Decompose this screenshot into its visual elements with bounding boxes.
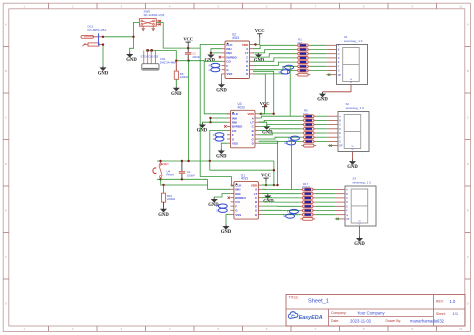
- wire reset bottom rail: [157, 178, 208, 180]
- wire R2 to S2 pin D: [316, 128, 328, 130]
- svg-text:Reset: Reset: [167, 173, 175, 177]
- wire R2 to S2 pin G: [316, 140, 328, 142]
- switch SW5 body: [139, 19, 160, 31]
- svg-text:GND: GND: [126, 58, 137, 63]
- capacitor C2 100nF: [185, 48, 200, 61]
- wire horizontal R6 rail: [176, 60, 204, 62]
- svg-text:U: U: [350, 81, 352, 84]
- svg-text:Drawn By:: Drawn By:: [386, 319, 402, 323]
- wire R2 to S2 pin C: [316, 124, 328, 126]
- wire VCC to U3 VDD: [259, 110, 265, 114]
- svg-text:D: D: [467, 162, 469, 166]
- ground under R6: [171, 86, 182, 97]
- svg-text:G: G: [339, 141, 341, 144]
- display S1 sevenseg: [310, 35, 367, 85]
- svg-text:GND: GND: [208, 203, 219, 208]
- connector DC1 DC-005C-25A label: [88, 25, 107, 32]
- svg-text:VSS: VSS: [226, 72, 232, 76]
- power flag VCC main: [183, 37, 193, 46]
- no-connect U1 BI/RBO: [228, 197, 230, 199]
- ground under U2: [216, 83, 227, 94]
- ground S2: [347, 160, 358, 171]
- ground under R10: [158, 207, 169, 218]
- wire U3 VSS to ground: [221, 143, 227, 149]
- net flag oval U3 F: [213, 133, 224, 137]
- svg-text:sevenseg_ 1 S: sevenseg_ 1 S: [344, 39, 363, 43]
- svg-text:GND: GND: [221, 230, 232, 235]
- svg-text:sevenseg_ 1 S: sevenseg_ 1 S: [353, 180, 372, 184]
- wire S1 common to ground: [323, 85, 352, 92]
- wire R1 to S1 pin B: [310, 49, 326, 51]
- power flag VCC at U1: [261, 173, 271, 182]
- svg-text:B: B: [5, 69, 7, 73]
- wire reset lower link: [161, 179, 208, 185]
- ground under U3: [216, 149, 227, 160]
- wire link U2 VSS row to U3 VCC stem: [253, 74, 265, 106]
- wire R2 to S2 pin A: [316, 115, 328, 117]
- op-IC U1 4033: [230, 173, 262, 219]
- svg-text:A: A: [5, 23, 7, 27]
- svg-text:Date:: Date:: [331, 319, 339, 323]
- wire reset branch right: [210, 169, 274, 171]
- EasyEDA logo: [288, 312, 322, 321]
- svg-text:2023-11-02: 2023-11-02: [350, 318, 372, 323]
- wire R1 to S1 pin E: [310, 61, 326, 63]
- wire S2 common to ground: [352, 152, 354, 160]
- wire VCC link U3 to U1: [259, 141, 278, 185]
- wire long segment vertical right row1-row2: [289, 66, 291, 116]
- svg-text:G: G: [283, 215, 285, 218]
- net flag oval R17 F: [287, 209, 298, 213]
- wire U1 RBI to ground: [214, 194, 230, 198]
- svg-text:Your Company: Your Company: [357, 310, 385, 315]
- wire U2 VSS to ground: [221, 74, 223, 83]
- svg-text:GND: GND: [158, 213, 169, 218]
- svg-text:GND: GND: [317, 98, 328, 103]
- wire U1 LT pulldown: [262, 193, 268, 195]
- wire switch right pin to VCC rail: [156, 22, 200, 48]
- wire U2 INH+RBI to ground: [211, 49, 222, 53]
- svg-text:REV:: REV:: [436, 300, 444, 304]
- resistor network R1: [296, 38, 311, 76]
- net flag oval U1 F: [216, 204, 227, 208]
- wire U1 VDD rail right: [262, 184, 274, 186]
- display S3 sevenseg: [315, 176, 376, 226]
- net flag oval R17 G: [283, 214, 294, 218]
- svg-text:C: C: [346, 197, 348, 200]
- wire R3 to S3 pin G: [315, 214, 335, 216]
- svg-text:VCC: VCC: [255, 28, 265, 33]
- svg-text:GND: GND: [171, 92, 182, 97]
- svg-text:sevenseg_ 1 S: sevenseg_ 1 S: [346, 106, 365, 110]
- crystal CN1 labels: [141, 55, 177, 65]
- svg-text:GND: GND: [98, 72, 109, 77]
- junction: [102, 36, 104, 38]
- svg-text:220kΩ: 220kΩ: [180, 75, 188, 79]
- svg-text:E: E: [5, 209, 7, 213]
- svg-text:VSS: VSS: [235, 213, 241, 217]
- wire segment feeds U->R3: [262, 188, 300, 190]
- net flag oval U2 G: [209, 68, 220, 72]
- svg-text:DHZ 54-48M: DHZ 54-48M: [160, 60, 177, 64]
- power flag VCC at U2: [255, 28, 265, 37]
- svg-text:220kΩ: 220kΩ: [167, 197, 175, 201]
- wire reset net to U1 VDD column: [273, 161, 275, 185]
- ground at U2 INH/RBI: [204, 53, 215, 64]
- ground at switch left: [126, 52, 137, 63]
- pushbutton U4 Reset: [153, 161, 174, 179]
- ground S1: [317, 92, 328, 103]
- svg-text:GND: GND: [216, 155, 227, 160]
- wire R1 to S1 pin G: [310, 70, 326, 72]
- svg-text:VCC: VCC: [183, 37, 193, 42]
- svg-text:manarhamada632: manarhamada632: [410, 318, 445, 323]
- svg-text:VSS: VSS: [232, 142, 238, 146]
- svg-text:4033: 4033: [238, 105, 245, 109]
- wire segment feeds U->R2: [259, 116, 302, 118]
- svg-text:G: G: [213, 138, 215, 141]
- svg-text:E: E: [467, 209, 469, 213]
- svg-text:D: D: [338, 57, 340, 60]
- svg-text:4033: 4033: [241, 177, 248, 181]
- svg-text:A: A: [467, 23, 469, 27]
- svg-text:D: D: [5, 162, 7, 166]
- svg-text:1/1: 1/1: [453, 311, 459, 316]
- wire U2 CO to cascade column: [204, 60, 221, 62]
- svg-text:G: G: [5, 302, 7, 306]
- wire R1 to S1 pin A: [310, 44, 326, 46]
- ground at U3 INH/RBI: [197, 123, 208, 134]
- no-connect U2 BI/RBO: [219, 56, 221, 58]
- wire R3 to S3 pin D: [315, 201, 335, 203]
- net flag oval R9 G: [284, 141, 295, 145]
- resistor R10 220k: [162, 185, 176, 207]
- svg-text:DP: DP: [346, 218, 350, 221]
- crystal CN1 body: [142, 50, 159, 70]
- net flag oval U3 G: [213, 137, 224, 141]
- wire R3 to S3 pin B: [315, 193, 335, 195]
- wire VCC stem to rail: [187, 45, 189, 48]
- svg-text:C: C: [467, 116, 469, 120]
- crystal CN1 pins wire: [146, 49, 176, 51]
- svg-text:DP: DP: [339, 145, 343, 148]
- ground under U1: [221, 224, 232, 235]
- svg-text:D: D: [339, 128, 341, 131]
- pad: [150, 49, 152, 51]
- no-connect U3 BI/RBO: [224, 125, 226, 127]
- net flag oval U1 G: [216, 208, 227, 212]
- ground under DC1: [98, 66, 109, 77]
- connector DC1 barrel jack symbol: [81, 33, 103, 46]
- svg-text:GND: GND: [354, 242, 365, 247]
- wire DC1 pin1 to switch: [103, 36, 134, 38]
- svg-text:DP: DP: [338, 74, 342, 77]
- wire R1 to S1 pin F: [310, 65, 326, 67]
- title block: [286, 295, 465, 327]
- ground at U3 LT: [262, 125, 273, 136]
- wire U3 CO cascade down: [210, 131, 227, 161]
- op-IC U2 4033: [222, 33, 254, 79]
- svg-text:G: G: [338, 70, 340, 73]
- wire C2 bottom down to reset rail: [188, 61, 190, 161]
- wire VCC to U1 VDD: [262, 181, 266, 185]
- wire U1 VSS to ground: [226, 215, 230, 225]
- svg-text:100nF: 100nF: [192, 55, 200, 59]
- svg-text:G: G: [284, 142, 286, 145]
- wire segment feeds U->R1: [253, 45, 296, 48]
- wire R3 to S3 pin A: [315, 189, 335, 191]
- svg-text:C: C: [5, 116, 7, 120]
- svg-text:G: G: [209, 69, 211, 72]
- wire reset top rail: [157, 160, 274, 162]
- no-connect S3 DP: [336, 218, 338, 220]
- wire VCC to U2 VDD: [253, 37, 260, 45]
- svg-text:VCC: VCC: [261, 173, 271, 178]
- pad: [146, 49, 148, 51]
- wire U3 INH+RBI to ground: [210, 118, 227, 122]
- svg-text:DC-005C-25A: DC-005C-25A: [88, 28, 107, 32]
- net flag oval R1 G: [279, 70, 290, 74]
- svg-text:STC-PC10-305: STC-PC10-305: [141, 55, 159, 59]
- wire R2 to S2 pin E: [316, 132, 328, 134]
- ground S3: [354, 236, 365, 247]
- svg-text:G: G: [346, 214, 348, 217]
- svg-text:EasyEDA: EasyEDA: [299, 315, 323, 321]
- svg-text:G: G: [467, 302, 469, 306]
- svg-text:U: U: [359, 223, 361, 226]
- wire CN1 rail down to R6 rail: [175, 50, 177, 60]
- display S2 sevenseg: [316, 102, 369, 152]
- wire R3 to S3 pin E: [315, 205, 335, 207]
- svg-text:GND: GND: [347, 165, 358, 170]
- wire VCC link U2 to U3: [253, 71, 274, 114]
- resistor network R17: [300, 182, 315, 220]
- wire U2 CLK from rail: [200, 45, 221, 49]
- wire R2 to S2 pin F: [316, 136, 328, 138]
- net flag oval R1 F: [282, 65, 293, 69]
- wire U1 INH from reset rail: [208, 185, 231, 189]
- svg-text:G: G: [216, 209, 218, 212]
- switch SW5 SK-12D02-VG5 labels: [144, 10, 165, 17]
- wire cascade column B to U3 CLK: [204, 61, 230, 114]
- svg-text:C: C: [338, 53, 340, 56]
- no-connect S2 DP: [329, 144, 331, 146]
- wire R1 to S1 pin D: [310, 57, 326, 59]
- no-connect S1 DP: [328, 74, 330, 76]
- wire DC1 pin2 down to ground: [102, 45, 104, 66]
- svg-text:Sheet:: Sheet:: [436, 312, 446, 316]
- svg-text:100nF: 100nF: [187, 174, 195, 178]
- wire S3 common to ground: [359, 226, 361, 236]
- net flag oval R9 F: [288, 136, 299, 140]
- op-IC U3 4033: [227, 102, 259, 148]
- wire R2 to S2 pin B: [316, 119, 328, 121]
- svg-text:Sheet_1: Sheet_1: [308, 299, 329, 305]
- svg-text:GND: GND: [197, 129, 208, 134]
- svg-text:TITLE:: TITLE:: [289, 295, 299, 299]
- svg-text:GND: GND: [216, 88, 227, 93]
- net flag oval U2 F: [209, 63, 220, 67]
- wire clock rail down-left column A: [200, 48, 234, 186]
- ground at U2 LT: [254, 53, 265, 64]
- svg-text:C: C: [339, 124, 341, 127]
- resistor R6 220k: [174, 61, 188, 86]
- svg-text:D: D: [346, 201, 348, 204]
- ground at U1 RBI: [208, 197, 219, 208]
- svg-text:B: B: [467, 69, 469, 73]
- svg-text:Company:: Company:: [331, 311, 347, 315]
- svg-text:SK-12D02-VG5: SK-12D02-VG5: [144, 13, 165, 17]
- resistor network R9: [301, 109, 316, 147]
- wire U2 LT pulldown: [253, 52, 259, 54]
- svg-text:1.0: 1.0: [450, 299, 456, 304]
- capacitor C1 100nF: [179, 161, 195, 179]
- wire R3 to S3 pin C: [315, 197, 335, 199]
- wire reset net branch down to U1: [209, 161, 211, 170]
- svg-text:U: U: [352, 148, 354, 151]
- svg-text:G: G: [279, 71, 281, 74]
- wire R1 to S1 pin C: [310, 53, 326, 55]
- wire switch left pin down: [130, 22, 140, 52]
- ground at U1 LT: [263, 194, 274, 205]
- power flag VCC at U3: [260, 101, 270, 110]
- wire U3 LT pulldown: [259, 122, 267, 124]
- wire R3 to S3 pin F: [315, 210, 335, 212]
- svg-text:4033: 4033: [232, 36, 239, 40]
- wire long segment vertical right row2-row3: [291, 136, 293, 190]
